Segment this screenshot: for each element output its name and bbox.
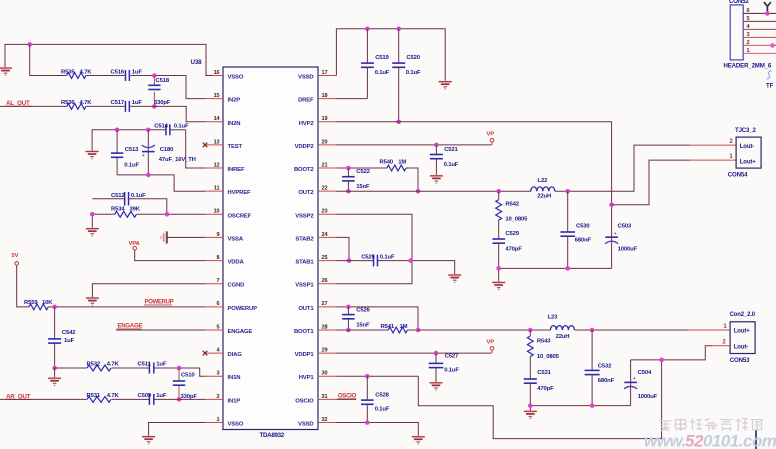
wire HVPREF rail to pin 11 [117,175,205,191]
svg-text:C520: C520 [406,55,420,61]
wire VPA to pin 8 VDDA [135,250,205,260]
junction C530 top [565,189,570,194]
junction CON53 node [659,358,664,363]
svg-text:HVP1: HVP1 [299,375,315,381]
svg-text:0.1uF: 0.1uF [444,162,459,168]
power 5V terminal [12,253,19,265]
svg-text:5: 5 [217,324,220,330]
svg-text:HEADER_2MM_6: HEADER_2MM_6 [724,62,772,69]
wire BOOT2 pin 21 row through R540 to OUT2 [337,168,419,191]
svg-text:C519: C519 [375,55,389,61]
junction STAB join [347,258,352,263]
svg-text:CGND: CGND [228,283,245,289]
resistor R536 [61,100,92,112]
wire ENGAGE to pin 5 [116,329,205,331]
wire OSCREF loop top branch [92,199,167,215]
power VP terminal channel 1 [487,339,495,353]
svg-text:3: 3 [217,371,220,377]
svg-text:25: 25 [322,255,328,261]
svg-text:IN2N: IN2N [228,121,241,127]
svg-text:TJC3_2: TJC3_2 [735,127,757,134]
svg-text:0.1uF: 0.1uF [380,254,395,260]
junction OSCREF left [90,212,95,217]
svg-text:0.1uF: 0.1uF [444,368,459,374]
capacitor C525 [361,254,395,266]
junction C522 top [346,166,351,171]
svg-text:0.1uF: 0.1uF [406,70,421,76]
svg-text:5: 5 [747,16,750,22]
svg-text:C517: C517 [111,100,125,106]
junction C525/VSSP [409,258,414,263]
junction HVP2/C520 [396,120,401,125]
node OSCIO net label [338,394,357,400]
svg-text:C542: C542 [62,330,76,336]
svg-text:IN1N: IN1N [228,375,241,381]
junction rail C530 [565,266,570,271]
svg-text:C525: C525 [361,254,375,260]
svg-text:1uF: 1uF [64,338,75,344]
svg-text:VSSO: VSSO [228,75,244,81]
svg-text:C521: C521 [444,147,458,153]
capacitor C517 [111,100,143,112]
svg-text:29: 29 [322,347,328,353]
node TF label with curl [766,71,774,90]
svg-text:17: 17 [322,70,328,76]
resistor R540 [380,159,407,171]
wire HVP2 pin 19 long row and drop to output junction [337,122,612,205]
svg-text:OSCIO: OSCIO [295,398,314,404]
svg-text:ENGAGE: ENGAGE [228,329,253,335]
svg-text:C513: C513 [125,147,139,153]
svg-text:L23: L23 [548,315,559,321]
svg-text:C522: C522 [356,169,370,175]
resistor R542 snubber [496,191,528,239]
svg-text:20: 20 [322,139,328,145]
svg-text:12: 12 [214,162,220,168]
svg-text:www.: www. [644,432,686,449]
svg-text:+: + [614,231,617,237]
svg-text:0.1uF: 0.1uF [131,193,146,199]
node AR_OUT net label [6,393,32,400]
wire STAB2 pin 24 down to STAB1 row [337,237,350,260]
junction C522 bottom [346,189,351,194]
svg-text:0.1uF: 0.1uF [375,407,390,413]
svg-text:R535: R535 [61,69,75,75]
wire IN2P input row: ground rail down to R535/C516 row then to pin 15 [30,44,205,98]
wire AL_OUT row to pin 14 IN2N [0,106,205,121]
svg-text:R536: R536 [61,100,75,106]
ground C521 [430,175,443,183]
junction C518 bottom [152,104,157,109]
svg-text:52: 52 [685,432,704,449]
junction POWERUP/C542 [52,305,57,310]
ground C527 [430,382,443,390]
svg-text:18: 18 [322,93,328,99]
svg-text:3: 3 [747,32,750,38]
capacitor C542 [48,307,76,368]
svg-text:VSSD: VSSD [298,75,313,81]
svg-text:16: 16 [214,70,220,76]
no-connect X at DIAG pin 4 [203,351,208,356]
capacitor C532 [585,330,615,406]
svg-text:22: 22 [322,186,328,192]
wire VSSA pin 9 to ground [167,236,205,238]
capacitor C510 330pF between IN1N and IN1P rows [173,368,198,400]
svg-text:C529: C529 [505,231,519,237]
svg-text:TDA8932: TDA8932 [260,432,285,439]
svg-text:9: 9 [217,232,220,238]
off-page arrow on header pin 2 [769,43,776,48]
svg-text:OUT1: OUT1 [298,306,314,312]
svg-text:10_0805: 10_0805 [537,354,560,360]
connector header HEADER_2MM_6 [724,0,776,69]
wire AR_OUT row to pin 2 IN1P [0,398,205,400]
svg-text:C511: C511 [138,362,152,368]
wire OUT1 pin 27 over to BOOT1 row [337,307,419,330]
svg-text:C180: C180 [160,147,174,153]
wire DREF pin 18 to C519 [337,98,368,100]
connector CON53 Con2_2.0 [722,312,755,364]
svg-text:C503: C503 [618,223,632,229]
junction R542 top [496,189,501,194]
svg-text:Lout+: Lout+ [740,159,756,165]
svg-text:0.1uF: 0.1uF [174,124,189,130]
capacitor C519 [361,29,390,99]
inductor L22 22uH [531,178,555,200]
svg-text:VDDA: VDDA [228,260,245,266]
wire VSSD pin 32 to ground [337,422,419,436]
capacitor C531 [524,370,554,406]
svg-text:C518: C518 [156,78,170,84]
inductor L23 22uH [548,315,575,340]
svg-text:CON54: CON54 [728,171,748,178]
svg-text:C528: C528 [375,393,389,399]
svg-text:10_0805: 10_0805 [505,217,528,223]
junction C528 bottom [365,420,370,425]
svg-text:1: 1 [217,417,220,423]
wire C542 to ground [54,368,56,378]
junction C510 bottom [177,397,182,402]
svg-text:Con2_2.0: Con2_2.0 [730,312,756,318]
svg-text:4.7K: 4.7K [80,69,93,75]
svg-text:TF: TF [766,83,774,90]
svg-text:L22: L22 [538,178,549,184]
svg-text:4.7K: 4.7K [80,100,93,106]
svg-text:C510: C510 [181,372,195,378]
svg-text:C526: C526 [356,307,370,313]
svg-text:8: 8 [217,255,220,261]
svg-text:14: 14 [214,116,221,122]
junction C518 top [152,73,157,78]
wire VDDP1 pin 29 row [337,352,492,354]
svg-text:28: 28 [322,324,328,330]
junction C513 top [115,128,120,133]
junction C521 [434,143,439,148]
ground pin 1 [142,436,155,444]
svg-text:VP: VP [487,339,495,345]
svg-text:10: 10 [214,209,220,215]
svg-text:INREF: INREF [228,167,245,173]
svg-text:0101.com: 0101.com [703,432,776,449]
svg-text:C516: C516 [111,69,125,75]
junction R540/OUT2 [416,189,421,194]
resistor R541 [381,324,408,333]
svg-text:BOOT1: BOOT1 [294,329,314,335]
svg-text:OUT2: OUT2 [298,190,314,196]
wire channel1 filter ground rail [530,406,630,411]
wire OUT2 pin 22 row to CON54 Lout- [337,145,737,191]
svg-text:R534: R534 [111,207,125,213]
svg-text:IN2P: IN2P [228,98,241,104]
svg-text:1M: 1M [398,159,406,165]
watermark url [644,432,776,449]
svg-text:11: 11 [214,186,220,192]
no-connect X at TEST pin 13 [203,143,208,148]
svg-text:680nF: 680nF [598,378,615,384]
svg-text:+: + [142,153,145,159]
svg-text:DREF: DREF [298,98,314,104]
svg-text:C504: C504 [638,370,652,376]
wire VSSD pin 17 up to decoupling rail and to ground [336,29,445,81]
ground decoupling rail [439,81,452,89]
svg-text:Lout-: Lout- [734,345,748,351]
svg-text:C514: C514 [154,124,168,130]
svg-text:4.7K: 4.7K [107,393,120,399]
capacitor C522 [342,168,371,191]
svg-text:6: 6 [747,8,750,14]
junction C527 [434,351,439,356]
wire HVP2 junction to CON54 Lout+ [612,160,737,205]
svg-text:VP: VP [487,131,495,137]
svg-text:1000uF: 1000uF [638,394,658,400]
resistor R534 [111,207,141,220]
wire 5V through R559 to pin 6 POWERUP [17,265,205,306]
svg-text:30: 30 [322,371,328,377]
svg-text:26: 26 [322,278,328,284]
power VPA terminal [129,241,141,250]
svg-text:1uF: 1uF [156,362,167,368]
resistor R559 [24,300,53,310]
svg-text:Lout+: Lout+ [734,329,750,335]
wire CON53 Lout- branch to C504 and HVP1 node [631,346,731,360]
wire OSCREF row to pin 10 [92,214,205,228]
svg-text:STAB2: STAB2 [295,236,314,242]
wire VSSP2 pin 23 to VSSP1 pin 26 loop [337,214,413,283]
wire pin 1 VSSO to ground [149,422,205,436]
svg-text:R540: R540 [380,159,394,165]
junction C180 top [146,128,151,133]
ground STAB decouple [448,274,461,282]
svg-text:31: 31 [322,394,328,400]
junction C526 bottom [346,328,351,333]
svg-text:2: 2 [747,40,750,46]
junction C542 bottom [52,366,57,371]
wire CGND pin 7 to ground [92,284,205,298]
svg-text:VSSA: VSSA [228,236,244,242]
capacitor C526 [342,307,371,330]
svg-text:15nF: 15nF [356,184,370,190]
resistor R531 [87,393,120,402]
wire VDDP2 pin 20 row [337,144,492,146]
svg-text:21: 21 [322,162,328,168]
junction rail left [496,266,501,271]
svg-text:VSSO: VSSO [228,421,244,427]
svg-text:R541: R541 [381,324,395,330]
svg-text:R531: R531 [87,393,101,399]
svg-text:VDDP1: VDDP1 [295,352,315,358]
svg-text:22uH: 22uH [537,194,551,200]
ground OSCREF [86,228,99,236]
svg-text:C530: C530 [576,223,590,229]
svg-text:TEST: TEST [228,144,243,150]
svg-text:BOOT2: BOOT2 [294,167,314,173]
junction R543 top [528,328,533,333]
svg-text:C512: C512 [111,193,125,199]
svg-text:R532: R532 [87,362,101,368]
capacitor C511 [138,362,167,374]
svg-text:47uF_16V_TH: 47uF_16V_TH [159,157,196,163]
svg-text:15nF: 15nF [356,323,370,329]
svg-text:470pF: 470pF [505,246,522,252]
svg-text:1uF: 1uF [132,69,143,75]
svg-text:19: 19 [322,116,328,122]
svg-text:15: 15 [214,93,220,99]
svg-text:VSSP2: VSSP2 [295,213,314,219]
node POWERUP net label [144,300,174,306]
svg-text:CON53: CON53 [730,357,750,364]
svg-text:C531: C531 [537,370,551,376]
ground channel1 rail [524,410,537,418]
capacitor C518 330pF between IN2P and IN2N rows [148,76,171,107]
svg-text:1000uF: 1000uF [618,247,638,253]
wire top-left rail from ground to pin 16 VSSO [5,44,212,75]
svg-text:VSSP1: VSSP1 [295,283,314,289]
ground C542 [48,377,61,385]
svg-text:13: 13 [214,139,220,145]
svg-text:470pF: 470pF [537,386,554,392]
wire HVP1 pin 30 stair route to CON53 Lout- node [337,360,662,439]
svg-text:0.1uF: 0.1uF [375,70,390,76]
capacitor C513 [111,130,140,175]
capacitor C521 [430,145,459,175]
svg-text:R542: R542 [505,202,519,208]
connector CON54 TJC3_2 [728,127,761,179]
wire OSCIO pin 31 stub [337,398,357,400]
svg-text:HVP2: HVP2 [299,121,315,127]
svg-text:4.7K: 4.7K [107,362,120,368]
ground VSSA sideways [161,231,167,245]
node ENGAGE net label [117,324,143,330]
wire OUT1 output row to CON53 Lout+ [418,329,730,331]
svg-text:+: + [633,376,636,382]
capacitor C503 electrolytic [605,205,638,269]
power VP terminal channel 2 [487,131,495,145]
capacitor C530 [560,191,591,268]
svg-text:C509: C509 [138,393,152,399]
IC U38 TDA8932 class-D amplifier with pin stubs and pin numbers [191,59,337,439]
junction HVP2/C503/CON54 [609,203,614,208]
antenna stub on header pin 6 [764,2,771,16]
svg-text:1: 1 [747,48,750,54]
junction C519 rail [365,27,370,32]
svg-text:U38: U38 [191,59,203,66]
capacitor C529 [492,231,522,268]
junction C520 rail [396,27,401,32]
junction OSCREF right [165,212,170,217]
wire INREF decouple rail with ground [92,130,165,151]
svg-text:VSSD: VSSD [298,421,313,427]
svg-text:R543: R543 [537,338,551,344]
capacitor C527 [429,353,460,382]
svg-text:39K: 39K [130,207,141,213]
svg-text:DIAG: DIAG [228,352,243,358]
junction rail R543 [528,403,533,408]
svg-text:24: 24 [322,232,329,238]
junction rail C532 [590,403,595,408]
junction top rail x30 [27,42,32,47]
svg-text:1uF: 1uF [156,393,167,399]
frame border corner [755,431,757,449]
junction C532 top [590,328,595,333]
svg-text:2: 2 [217,394,220,400]
capacitor C528 [361,376,390,422]
capacitor C516 [111,69,143,81]
svg-text:32: 32 [322,417,328,423]
svg-text:OSCREF: OSCREF [228,213,252,219]
svg-text:1uF: 1uF [132,100,143,106]
capacitor C514 on rail to INREF pin 12 [154,124,205,168]
ground pin 32 [412,436,425,444]
capacitor C504 electrolytic [624,360,658,406]
ground top-left [0,67,12,75]
svg-text:C532: C532 [598,364,612,370]
svg-text:0.1uF: 0.1uF [124,163,139,169]
svg-text:VDDP2: VDDP2 [295,144,315,150]
ground CGND [86,297,99,305]
junction R541/OUT1 [416,328,421,333]
wire channel2 filter ground rail [499,268,612,281]
resistor R535 [61,69,92,81]
svg-text:C527: C527 [445,354,459,360]
wire BOOT1 pin 28 row through R541 [337,329,419,331]
capacitor C509 [138,393,167,405]
wire IN1N row to pin 3 [55,368,205,376]
svg-text:STAB1: STAB1 [295,260,314,266]
wire STAB1 pin 25 row through C525 to ground branch [337,261,455,275]
svg-text:6: 6 [217,301,220,307]
svg-text:1M: 1M [400,324,408,330]
svg-text:680nF: 680nF [575,238,592,244]
watermark chinese text [659,419,763,431]
svg-text:27: 27 [322,301,328,307]
svg-text:10K: 10K [42,300,53,306]
junction C510 top [177,366,182,371]
ground channel2 rail [492,282,505,290]
svg-text:R559: R559 [24,300,38,306]
junction C528 top [365,374,370,379]
svg-text:CON52: CON52 [729,0,749,5]
junction C526 top [346,305,351,310]
node AL_OUT net label [6,100,32,107]
svg-text:5V: 5V [12,253,19,259]
svg-text:Lout-: Lout- [740,144,754,150]
resistor R532 [87,362,120,371]
ground INREF rail [86,151,99,159]
svg-text:23: 23 [322,209,328,215]
capacitor C512 [111,192,146,206]
capacitor C520 [392,29,421,122]
capacitor C180 electrolytic 47uF [142,130,196,175]
